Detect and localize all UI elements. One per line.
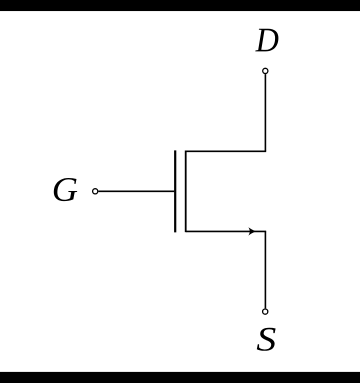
- wire: source vertical: [264, 231, 266, 308]
- wire: drain lead horizontal: [186, 150, 266, 152]
- wire: drain vertical: [264, 74, 266, 151]
- terminal node D: [263, 68, 268, 73]
- top black bar: [0, 0, 360, 11]
- label G (gate): [54, 178, 77, 201]
- wire: source lead horizontal: [186, 230, 266, 232]
- arrowhead on source lead: [248, 227, 255, 235]
- bottom black bar: [0, 372, 360, 383]
- label D (drain): [255, 29, 278, 52]
- gate bar of transistor Q1: [174, 150, 176, 232]
- terminal node S: [263, 309, 268, 314]
- label S (source): [257, 328, 276, 351]
- wire: gate lead: [98, 190, 174, 192]
- terminal node G: [93, 189, 98, 194]
- channel bar of transistor Q1: [185, 151, 187, 233]
